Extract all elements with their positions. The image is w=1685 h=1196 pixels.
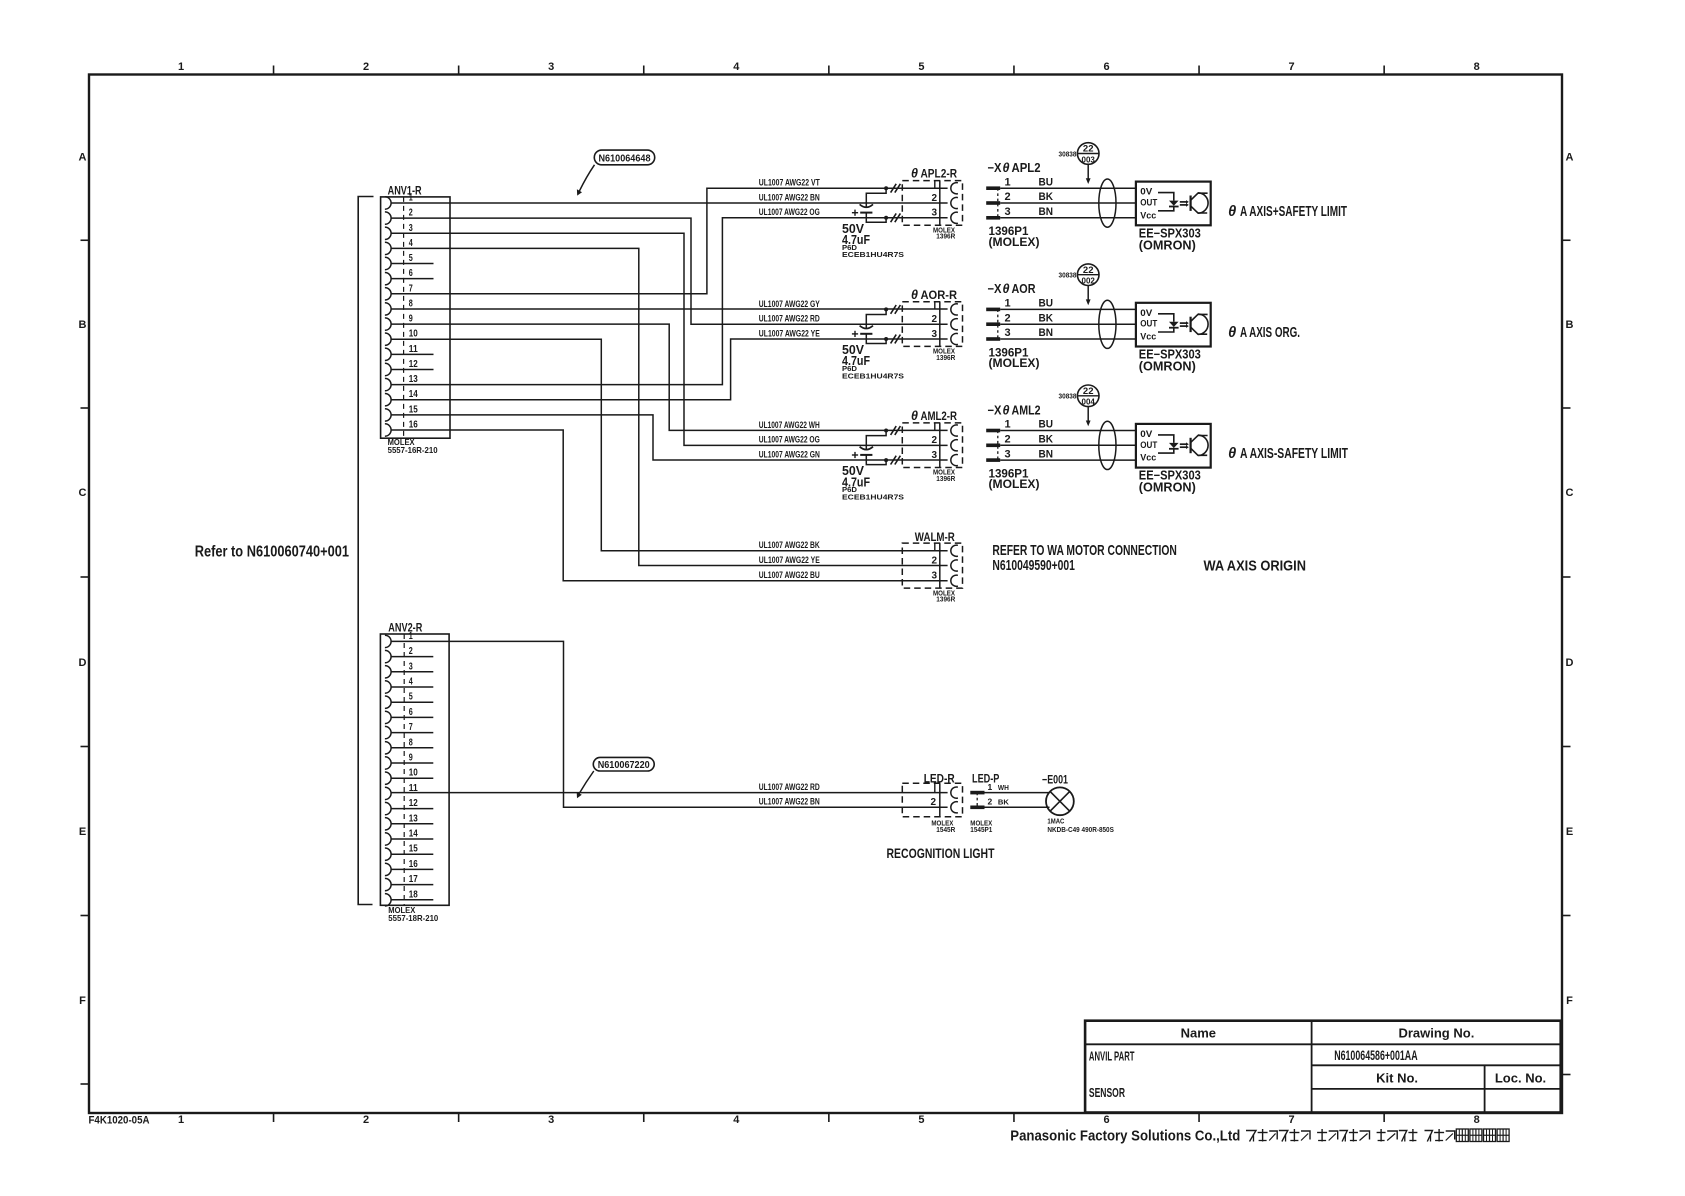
svg-text:16: 16 [409,419,418,430]
ANV1-R pin 4 [385,238,413,255]
svg-text:3: 3 [548,1114,554,1126]
svg-text:ANVIL PART: ANVIL PART [1089,1049,1135,1063]
svg-text:6: 6 [409,707,413,718]
ANV1-R pin 15 [385,404,418,421]
ruler column numbers 1-8 with ticks [178,61,1480,1126]
plug connector -XAOR contacts [986,308,1000,341]
svg-text:BK: BK [1039,191,1054,203]
svg-text:11: 11 [409,344,418,355]
svg-text:Panasonic Factory Solutions Co: Panasonic Factory Solutions Co.,Ltd [1010,1129,1240,1145]
ANV1-R pin 12 [385,359,434,376]
ANV1-R pin 5 [385,253,434,270]
ANV2-R pin 13 [385,813,433,830]
ANV2-R pin 2 [385,646,433,663]
svg-text:1396R: 1396R [936,474,955,483]
svg-text:1545P1: 1545P1 [970,825,992,834]
svg-text:30838: 30838 [1059,392,1077,401]
svg-text:C: C [79,487,87,499]
svg-text:12: 12 [409,359,418,370]
cable bundle ellipse APL2 [1099,179,1116,227]
plug connector -XAPL2 contacts [986,186,1000,219]
svg-text:Refer to N610060740+001: Refer to N610060740+001 [195,543,349,560]
svg-text:θ: θ [1228,325,1236,341]
svg-text:ANV2-R: ANV2-R [388,621,422,635]
svg-text:3: 3 [932,450,938,461]
wire ANV1 pin13 to APL2-R pin3 (OG) [391,218,948,385]
svg-text:UL1007 AWG22 YE: UL1007 AWG22 YE [759,555,820,565]
svg-text:9: 9 [409,753,413,764]
svg-text:F4K1020-05A: F4K1020-05A [89,1115,150,1127]
svg-text:WA AXIS ORIGIN: WA AXIS ORIGIN [1204,557,1307,574]
svg-text:−E001: −E001 [1042,772,1068,786]
svg-text:A: A [79,152,87,164]
svg-text:003: 003 [1082,155,1096,164]
svg-text:002: 002 [1082,277,1096,286]
svg-text:θ: θ [1003,282,1010,296]
svg-text:3: 3 [548,61,554,73]
svg-text:Vcc: Vcc [1140,332,1156,342]
svg-text:3: 3 [1005,327,1011,339]
svg-text:D: D [79,657,87,669]
svg-text:22: 22 [1083,386,1094,397]
svg-text:16: 16 [409,859,418,870]
capacitor C-AOR 4.7uF 50V [852,307,888,343]
svg-text:N610064586+001AA: N610064586+001AA [1334,1047,1417,1063]
harness group bracket [358,197,373,905]
ANV2-R pin 12 [385,798,433,815]
connector ANV2-R body [380,634,449,905]
svg-text:1: 1 [1005,176,1011,188]
svg-text:F: F [79,995,86,1007]
svg-text:UL1007 AWG22 YE: UL1007 AWG22 YE [759,328,820,338]
svg-text:LED-P: LED-P [972,771,999,785]
svg-text:OUT: OUT [1140,198,1157,208]
svg-text:OUT: OUT [1140,319,1157,329]
svg-text:22: 22 [1083,265,1094,276]
optocoupler symbol U-AML2 [1158,435,1208,456]
wire ANV1 pin10 to WALM-R pin1 (BK) [391,339,948,551]
plug -XAML2 pin numbers and wire colors [1005,419,1054,461]
svg-text:0V: 0V [1140,308,1152,318]
ANV2-R pin 16 [385,859,433,876]
connector LED-R dashed housing [902,783,962,817]
svg-text:−X: −X [988,282,1003,296]
svg-text:UL1007 AWG22 BK: UL1007 AWG22 BK [759,540,820,550]
wires APL2 plug to sensor [1000,188,1136,218]
svg-text:1545R: 1545R [936,825,955,834]
svg-text:θ: θ [1003,403,1010,417]
svg-text:N610064648: N610064648 [599,152,651,164]
svg-text:2: 2 [932,435,938,446]
svg-text:12: 12 [409,798,418,809]
svg-text:10: 10 [409,329,418,340]
photo sensor U-AOR box [1136,303,1211,347]
svg-text:BU: BU [1039,176,1054,188]
svg-text:1: 1 [1005,298,1011,310]
svg-text:θ: θ [1228,446,1236,462]
svg-text:(OMRON): (OMRON) [1139,360,1196,374]
svg-text:RECOGNITION LIGHT: RECOGNITION LIGHT [887,845,995,861]
ANV2-R pin 1 [385,631,413,648]
wire ANV1 pin1 to APL2-R pin2 (BN) [391,202,948,204]
svg-text:7: 7 [409,283,413,294]
ANV2-R pin 15 [385,844,433,861]
AOR-R pin numbers [932,314,938,340]
svg-text:BN: BN [1039,206,1054,218]
svg-text:5: 5 [918,61,924,73]
wires AML2 plug to sensor [1000,431,1136,461]
wire ANV1 pin8 to AOR-R pin1 (GY) [391,308,948,310]
svg-text:2: 2 [409,646,413,657]
wires AOR plug to sensor [1000,309,1136,339]
svg-text:2: 2 [931,797,937,808]
svg-text:BU: BU [1039,298,1054,310]
svg-text:10: 10 [409,768,418,779]
APL2-R contact arcs [951,183,958,224]
svg-text:8: 8 [1474,61,1480,73]
svg-text:θ: θ [911,167,918,181]
svg-text:4: 4 [733,61,740,73]
svg-text:0V: 0V [1140,187,1152,197]
wire ANV1 pin15 to AML2-R pin3 (GN) [391,415,948,460]
svg-text:A AXIS ORG.: A AXIS ORG. [1240,325,1300,341]
svg-text:(MOLEX): (MOLEX) [989,237,1040,249]
svg-text:0V: 0V [1140,429,1152,439]
svg-text:WALM-R: WALM-R [915,530,955,544]
ANV2-R pin 7 [385,722,433,739]
ANV1-R pin 14 [385,389,418,406]
ANV1-R pin 11 [385,344,434,361]
svg-text:14: 14 [409,829,418,840]
ANV2-R pin 8 [385,737,433,754]
svg-text:BN: BN [1039,327,1054,339]
svg-text:5557-16R-210: 5557-16R-210 [388,445,438,455]
svg-text:APL2-R: APL2-R [921,167,958,181]
svg-text:4: 4 [409,677,413,688]
connector AML2-R dashed housing [902,423,962,468]
svg-text:UL1007 AWG22 OG: UL1007 AWG22 OG [759,435,820,445]
ANV1-R pin 3 [385,223,413,240]
svg-text:13: 13 [409,374,418,385]
twisted pair marks APL2 [891,184,901,222]
ANV2-R pin 9 [385,753,433,770]
svg-text:2: 2 [1005,191,1011,203]
svg-text:N610067220: N610067220 [598,759,650,771]
WALM-R pin numbers [932,555,938,581]
svg-text:7: 7 [1289,1114,1295,1126]
svg-text:2: 2 [932,193,938,204]
twisted pair marks AML2 [891,426,901,464]
svg-text:18: 18 [409,889,418,900]
ANV2-R pin 5 [385,692,433,709]
svg-text:(MOLEX): (MOLEX) [989,358,1040,370]
ANV2-R pin 6 [385,707,433,724]
svg-text:17: 17 [409,874,418,885]
APL2-R pin numbers [932,193,938,219]
svg-text:UL1007 AWG22 GY: UL1007 AWG22 GY [759,299,820,309]
wire LED-P pin1 to lamp [985,792,1050,794]
svg-text:5: 5 [918,1114,924,1126]
wire ANV1 pin3 to AML2-R pin2 (OG) [391,233,948,445]
plug connector LED-P contacts [970,791,984,809]
svg-text:N610049590+001: N610049590+001 [992,557,1075,574]
wire LED-P pin2 to lamp [985,806,1050,808]
ANV2-R pin 10 [385,768,433,785]
svg-text:A AXIS-SAFETY LIMIT: A AXIS-SAFETY LIMIT [1240,446,1348,462]
svg-text:θ: θ [1003,161,1010,175]
svg-text:D: D [1566,657,1574,669]
svg-text:ANV1-R: ANV1-R [388,183,422,197]
ANV2-R pin 17 [385,874,433,891]
svg-text:004: 004 [1082,398,1096,407]
svg-text:UL1007 AWG22 OG: UL1007 AWG22 OG [759,207,820,217]
svg-text:2: 2 [932,314,938,325]
svg-text:2: 2 [363,61,369,73]
svg-text:14: 14 [409,389,418,400]
svg-text:1: 1 [409,193,413,204]
svg-text:30838: 30838 [1059,271,1077,280]
WALM-R contact arcs [951,545,958,586]
svg-text:3: 3 [932,329,938,340]
plug -XAPL2 pin numbers and wire colors [1005,176,1054,218]
cable marker circle 22/002 AOR [1059,264,1100,305]
drawing border frame [89,75,1562,1114]
svg-text:5557-18R-210: 5557-18R-210 [388,913,438,923]
svg-text:C: C [1566,487,1574,499]
ANV2-R pin 4 [385,677,433,694]
plug -XAOR pin numbers and wire colors [1005,298,1054,340]
svg-text:BU: BU [1039,419,1054,431]
svg-text:1: 1 [988,782,993,792]
svg-text:θ: θ [1228,204,1236,220]
ANV1-R pin 10 [385,329,418,346]
AML2-R pin numbers [932,435,938,461]
wire ANV1 pin14 to AOR-R pin3 (YE) [391,339,948,400]
cable bundle ellipse AML2 [1099,421,1116,469]
svg-text:Kit No.: Kit No. [1376,1070,1418,1085]
svg-text:7: 7 [409,722,413,733]
svg-text:4: 4 [733,1114,740,1126]
svg-text:13: 13 [409,813,418,824]
wire ANV1 pin2 to AOR-R pin2 (RD) [391,218,948,324]
cable reference bubble N610067220 [577,757,655,798]
svg-text:22: 22 [1083,144,1094,155]
svg-text:APL2: APL2 [1012,161,1041,175]
title block table [1085,1021,1561,1113]
optocoupler symbol U-APL2 [1158,193,1208,214]
svg-text:6: 6 [1103,1114,1109,1126]
svg-text:1396R: 1396R [936,353,955,362]
svg-text:3: 3 [932,208,938,219]
svg-text:UL1007 AWG22 BN: UL1007 AWG22 BN [759,192,820,202]
lamp -E001 symbol [1046,787,1074,815]
wire ANV1 pin9 to AML2-R pin1 (WH) [391,324,948,430]
connector AOR-R dashed housing [902,302,962,347]
svg-text:ECEB1HU4R7S: ECEB1HU4R7S [842,371,904,380]
svg-text:9: 9 [409,314,413,325]
connector APL2-R dashed housing [902,181,962,226]
svg-text:NKDB-C49 490R-850S: NKDB-C49 490R-850S [1047,825,1114,834]
svg-text:8: 8 [1474,1114,1480,1126]
svg-text:B: B [79,319,87,331]
svg-text:UL1007 AWG22 BN: UL1007 AWG22 BN [759,797,820,807]
ANV1-R pin 6 [385,268,434,285]
ANV1-R pin 13 [385,374,418,391]
svg-text:Vcc: Vcc [1140,210,1156,220]
svg-text:8: 8 [409,298,413,309]
ANV1-R pin 9 [385,314,413,331]
svg-text:AML2: AML2 [1012,403,1041,417]
svg-text:3: 3 [409,661,413,672]
optocoupler symbol U-AOR [1158,314,1208,335]
svg-text:F: F [1566,995,1573,1007]
svg-text:E: E [1566,826,1573,838]
svg-text:θ: θ [911,288,918,302]
svg-text:SENSOR: SENSOR [1089,1086,1125,1100]
svg-text:6: 6 [1103,61,1109,73]
svg-text:A: A [1566,152,1574,164]
svg-text:E: E [79,826,86,838]
svg-text:BK: BK [1039,434,1054,446]
svg-text:ECEB1HU4R7S: ECEB1HU4R7S [842,250,904,259]
wire ANV1 pin4 to WALM-R pin2 (YE) [391,248,948,565]
svg-text:2: 2 [409,208,413,219]
connector ANV1-R body [381,197,450,438]
svg-text:UL1007 AWG22 RD: UL1007 AWG22 RD [759,314,820,324]
svg-text:AOR-R: AOR-R [921,288,958,302]
AML2-R contact arcs [951,425,958,466]
capacitor C-AML2 4.7uF 50V [852,429,888,465]
svg-text:OUT: OUT [1140,440,1157,450]
svg-text:1: 1 [409,631,413,642]
svg-text:2: 2 [1005,312,1011,324]
svg-text:4: 4 [409,238,413,249]
ANV2-R pin 14 [385,829,433,846]
photo sensor U-AML2 box [1136,424,1211,468]
svg-text:WH: WH [998,785,1009,792]
LED-R contact arcs [951,787,958,798]
capacitor C-APL2 4.7uF 50V [852,186,888,222]
svg-text:1: 1 [178,1114,184,1126]
ruler row letters A-F with ticks [79,152,1574,1085]
svg-text:2: 2 [363,1114,369,1126]
svg-text:B: B [1566,319,1574,331]
svg-text:3: 3 [1005,206,1011,218]
svg-text:UL1007 AWG22 GN: UL1007 AWG22 GN [759,450,820,460]
ANV2-R pin 3 [385,661,433,678]
svg-text:7: 7 [1289,61,1295,73]
svg-text:LED-R: LED-R [924,771,955,785]
svg-text:A AXIS+SAFETY LIMIT: A AXIS+SAFETY LIMIT [1240,204,1347,220]
AOR-R contact arcs [951,304,958,345]
svg-text:2: 2 [1005,434,1011,446]
svg-text:θ: θ [911,409,918,423]
svg-text:UL1007 AWG22 WH: UL1007 AWG22 WH [759,420,820,430]
svg-text:2: 2 [988,797,993,807]
wire ANV2 pin11 to LED-R pin1 (RD) [391,792,948,794]
ANV1-R pin 7 [385,283,413,300]
cable marker circle 22/004 AML2 [1059,385,1100,426]
wire ANV1 pin16 to WALM-R pin3 (BU) [391,430,948,581]
footer Japanese company name (glyph shapes) [1246,1129,1509,1142]
svg-text:AML2-R: AML2-R [921,409,958,423]
svg-text:3: 3 [1005,448,1011,460]
svg-text:BK: BK [1039,312,1054,324]
ANV2-R pin 11 [385,783,418,800]
ANV1-R pin 2 [385,208,413,225]
svg-text:(MOLEX): (MOLEX) [989,479,1040,491]
twisted pair marks AOR [891,305,901,343]
plug connector -XAML2 contacts [986,429,1000,462]
svg-text:6: 6 [409,268,413,279]
ANV1-R pin 16 [385,419,418,436]
svg-text:3: 3 [409,223,413,234]
connector WALM-R dashed housing [902,543,962,588]
wire ANV1 pin7 to APL2-R pin1 (VT) [391,188,948,294]
cable reference bubble N610064648 [577,150,655,196]
svg-text:1396R: 1396R [936,232,955,241]
svg-text:1: 1 [178,61,184,73]
svg-text:UL1007 AWG22 VT: UL1007 AWG22 VT [759,178,820,188]
svg-text:−X: −X [988,161,1003,175]
svg-text:30838: 30838 [1059,149,1077,158]
svg-text:ECEB1HU4R7S: ECEB1HU4R7S [842,493,904,502]
svg-text:15: 15 [409,844,418,855]
ANV2-R pin 18 [385,889,433,906]
svg-text:BN: BN [1039,448,1054,460]
svg-text:15: 15 [409,404,418,415]
svg-text:−X: −X [988,403,1003,417]
svg-text:BK: BK [998,800,1009,807]
svg-text:Vcc: Vcc [1140,453,1156,463]
cable marker circle 22/003 APL2 [1059,143,1100,184]
photo sensor U-APL2 box [1136,182,1211,226]
svg-text:(OMRON): (OMRON) [1139,481,1196,495]
cable bundle ellipse AOR [1099,300,1116,348]
svg-text:1396R: 1396R [936,595,955,604]
svg-text:1: 1 [1005,419,1011,431]
svg-text:Name: Name [1181,1025,1216,1040]
svg-text:5: 5 [409,253,413,264]
svg-text:8: 8 [409,737,413,748]
wire ANV2 pin1 to LED-R pin2 (BN) [391,641,948,807]
ANV1-R pin 8 [385,298,413,315]
svg-text:2: 2 [932,555,938,566]
svg-text:AOR: AOR [1012,282,1036,296]
svg-text:Drawing No.: Drawing No. [1398,1026,1474,1041]
svg-text:UL1007 AWG22 BU: UL1007 AWG22 BU [759,570,820,580]
svg-text:(OMRON): (OMRON) [1139,238,1196,252]
svg-text:Loc. No.: Loc. No. [1495,1070,1546,1085]
svg-text:UL1007 AWG22 RD: UL1007 AWG22 RD [759,782,820,792]
ANV1-R pin 1 [385,193,413,210]
svg-text:3: 3 [932,571,938,582]
svg-text:5: 5 [409,692,413,703]
